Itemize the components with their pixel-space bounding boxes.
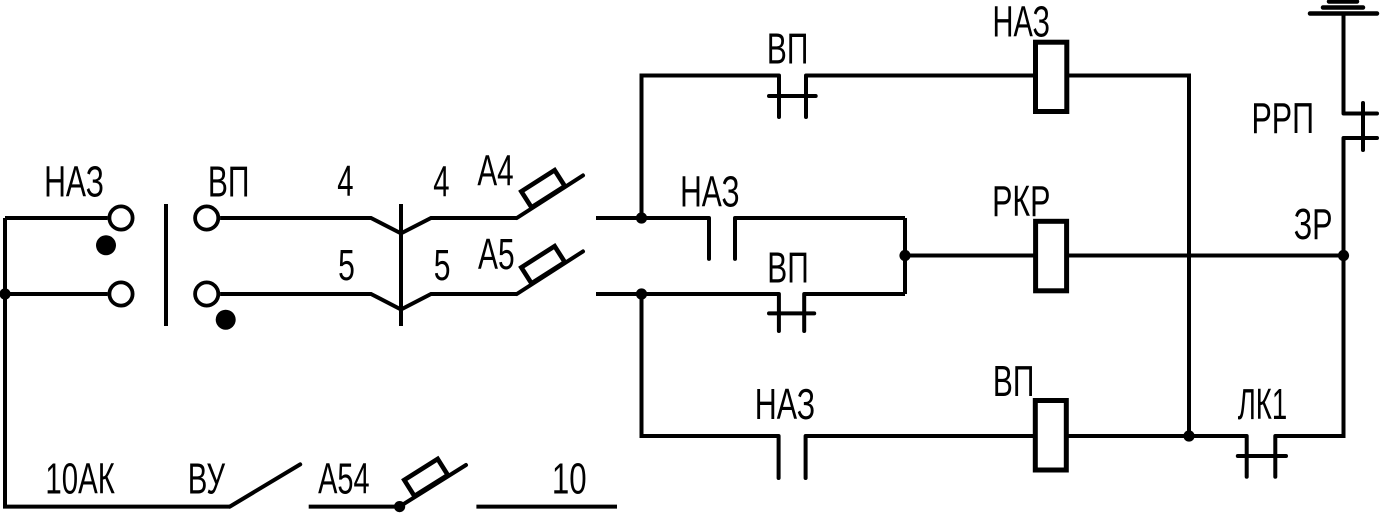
contact НАЗ middle normally-open hooks bbox=[709, 218, 735, 259]
wire row 4 left to НАЗ contact circle bbox=[5, 216, 108, 220]
wire row 4 from НАЗ contact to right tie bbox=[735, 216, 905, 220]
node junction ЗР bbox=[1338, 250, 1349, 261]
node junction row4 x641 bbox=[636, 212, 647, 223]
svg-text:А54: А54 bbox=[318, 455, 369, 503]
ground symbol bbox=[1310, 2, 1377, 14]
svg-text:ВП: ВП bbox=[767, 243, 808, 292]
fuse-switch A5 blade bbox=[517, 251, 583, 294]
svg-text:4: 4 bbox=[337, 156, 353, 205]
svg-text:НАЗ: НАЗ bbox=[993, 0, 1051, 46]
contact ЛК1 normally-closed hooks bbox=[1247, 436, 1276, 477]
svg-text:НАЗ: НАЗ bbox=[755, 380, 815, 429]
wire А54 segment bbox=[309, 505, 400, 509]
wire bottom branch from НАЗ contact through ВП coil bbox=[806, 434, 1247, 438]
wire bottom branch to right bus corner bbox=[1275, 138, 1343, 436]
fuse-switch А54 body bbox=[404, 459, 448, 496]
svg-text:5: 5 bbox=[434, 241, 451, 290]
relay coil ВП bottom bbox=[1035, 401, 1066, 471]
switch ВУ blade bbox=[230, 464, 300, 506]
wire row 4 from ВП circle to chevron bbox=[220, 218, 401, 233]
controller contact ВП lower circle bbox=[195, 282, 218, 305]
wire row 5 from ВП circle to chevron bbox=[220, 294, 401, 310]
wire left bus vertical with bottom rail bbox=[5, 218, 230, 507]
svg-text:ВУ: ВУ bbox=[188, 454, 226, 503]
wire row 5 from ВП contact to right tie bbox=[804, 292, 905, 296]
position marker dot НАЗ bbox=[96, 235, 116, 255]
svg-text:НАЗ: НАЗ bbox=[44, 157, 104, 206]
wire top branch up and across to right bus bbox=[642, 76, 780, 219]
node junction middle tie bbox=[899, 250, 910, 261]
fuse-switch A5 body bbox=[521, 246, 565, 283]
wire chevron vertical tie bbox=[399, 204, 403, 326]
fuse-switch А54 blade bbox=[400, 465, 466, 507]
controller contact ВП upper circle bbox=[195, 206, 218, 229]
node junction row5 x641 bbox=[636, 288, 647, 299]
svg-text:10АК: 10АК bbox=[45, 454, 115, 503]
contact РРП crossbar bbox=[1361, 103, 1365, 150]
svg-text:ВП: ВП bbox=[767, 24, 808, 73]
svg-text:РРП: РРП bbox=[1252, 94, 1314, 143]
svg-text:А4: А4 bbox=[477, 146, 513, 195]
svg-text:10: 10 bbox=[552, 456, 587, 504]
svg-text:ЛК1: ЛК1 bbox=[1238, 380, 1287, 429]
wire row 5 chevron right to A5 blade base bbox=[401, 294, 517, 310]
node junction left bus row5 bbox=[0, 288, 11, 299]
svg-text:А5: А5 bbox=[478, 229, 515, 278]
svg-text:ВП: ВП bbox=[993, 356, 1034, 405]
contact ЛК1 crossbar bbox=[1238, 454, 1286, 458]
wire bottom branch down and across bbox=[642, 294, 779, 436]
contact ВП top crossbar bbox=[769, 94, 816, 98]
svg-text:РКР: РКР bbox=[992, 177, 1050, 226]
relay coil НАЗ top bbox=[1036, 42, 1067, 111]
wire row 4 stub into middle network bbox=[596, 216, 709, 220]
contact НАЗ bottom normally-open hooks bbox=[779, 436, 806, 478]
wire row 5 stub into middle network bbox=[596, 292, 779, 296]
svg-text:5: 5 bbox=[338, 241, 355, 290]
contact РРП hooks bbox=[1344, 114, 1378, 139]
wire row 5 left to НАЗ contact circle bbox=[5, 292, 108, 296]
svg-text:ВП: ВП bbox=[208, 157, 250, 206]
controller contact НАЗ upper circle bbox=[109, 206, 132, 229]
wire terminal 10 bbox=[476, 505, 617, 509]
svg-text:НАЗ: НАЗ bbox=[680, 167, 739, 216]
wire middle tie vertical bbox=[903, 218, 907, 294]
position marker dot ВП bbox=[216, 310, 236, 330]
contact ВП middle normally-closed hooks bbox=[779, 294, 804, 331]
wire right bus top to ground bbox=[1342, 14, 1346, 114]
contact ВП top normally-closed hooks bbox=[779, 76, 806, 118]
node junction А54 blade base bbox=[394, 501, 405, 512]
controller contact НАЗ lower circle bbox=[109, 282, 132, 305]
wire РКР row to right bus bbox=[905, 254, 1344, 258]
relay coil РКР bbox=[1036, 221, 1067, 290]
controller separator bar bbox=[164, 204, 168, 326]
svg-text:4: 4 bbox=[433, 157, 449, 206]
node junction bottom bus bbox=[1183, 430, 1194, 441]
contact ВП middle crossbar bbox=[769, 311, 814, 315]
fuse-switch A4 blade bbox=[517, 175, 583, 218]
wire top branch from ВП contact through НАЗ coil to bus bbox=[806, 76, 1189, 437]
fuse-switch A4 body bbox=[521, 170, 565, 207]
svg-text:ЗР: ЗР bbox=[1294, 200, 1333, 249]
wire row 4 chevron right to A4 blade base bbox=[401, 218, 517, 233]
